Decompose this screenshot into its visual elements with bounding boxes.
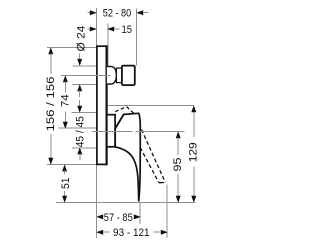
svg-text:51: 51 <box>60 177 72 189</box>
extension line 74 bottom reference <box>58 127 97 129</box>
extension line plate back vertical for 15 <box>107 24 109 67</box>
extension line 156 top horizontal <box>47 46 97 48</box>
bottom reference line <box>56 201 196 203</box>
svg-text:93 - 121: 93 - 121 <box>113 227 150 239</box>
dimension 45/45 <box>74 100 86 161</box>
extension line 129 top horizontal <box>107 105 194 107</box>
dashed lever top-left edge (open position) <box>115 107 126 112</box>
svg-text:156 / 156: 156 / 156 <box>45 77 57 132</box>
spout centerline (over plate) <box>61 74 111 76</box>
extension line spout end vertical <box>135 9 137 66</box>
svg-text:129: 129 <box>188 142 200 162</box>
dimension 57-85 <box>96 212 141 224</box>
dimension 129 <box>188 105 200 203</box>
lever blade left diagonal edge <box>115 114 124 128</box>
svg-text:95: 95 <box>172 158 184 172</box>
dimension 95 <box>172 131 184 203</box>
dimension 51 <box>60 164 72 202</box>
dashed lever inner edge <box>140 148 159 183</box>
handle pivot centerline (over plate, hub and blade) <box>92 130 185 132</box>
extension line blade tip vertical <box>139 202 141 224</box>
dimension 52-80 <box>88 8 149 20</box>
extension line plate bottom left <box>47 164 97 166</box>
extension line hub bottom <box>72 147 97 149</box>
lever blade (solid, closed position) <box>115 113 140 201</box>
svg-text:15: 15 <box>122 24 133 36</box>
svg-text:74: 74 <box>59 94 71 107</box>
svg-text:Ø 24: Ø 24 <box>75 26 87 52</box>
extension line dashed-lever tip vertical <box>166 185 168 239</box>
svg-text:57 - 85: 57 - 85 <box>104 212 133 224</box>
extension line plate front bottom vertical <box>96 165 98 239</box>
dimension 15 <box>88 24 133 36</box>
dimension 156/156 <box>45 47 57 165</box>
dashed lever tip face <box>159 181 165 183</box>
handle hub <box>107 115 115 147</box>
dashed lever outer edge <box>142 130 166 183</box>
extension line spout top (Ø24) <box>73 65 97 67</box>
extension line top-left vertical from plate front <box>96 8 98 46</box>
spout dome <box>107 66 117 84</box>
dimension Ø24 <box>75 26 87 98</box>
extension line hub top <box>72 112 97 114</box>
svg-text:52 - 80: 52 - 80 <box>103 8 132 20</box>
dashed lever top edge <box>127 107 135 115</box>
dimension 93-121 <box>96 227 168 239</box>
spout neck rectangle <box>116 68 122 83</box>
svg-text:45 / 45: 45 / 45 <box>74 116 86 147</box>
wall plate (escutcheon side view) <box>97 46 107 164</box>
wall plate front face (bold edge) <box>105 45 107 165</box>
dimension 74 <box>59 75 71 129</box>
extension line spout bottom (Ø24) <box>73 83 97 85</box>
spout outlet block <box>122 66 135 86</box>
